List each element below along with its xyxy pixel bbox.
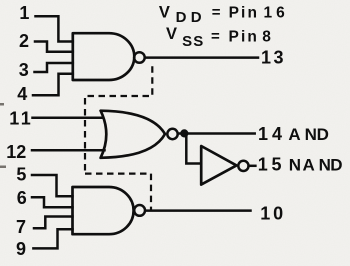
wire pin 7 to U3 input C: [34, 217, 73, 229]
power label VSS = Pin 8: [166, 25, 271, 50]
svg-text:6: 6: [17, 188, 27, 208]
svg-text:10: 10: [260, 204, 286, 224]
svg-text:Pin: Pin: [229, 4, 259, 21]
wire pin 1 to U1 input A: [36, 16, 73, 41]
svg-text:12: 12: [6, 142, 26, 162]
svg-text:14: 14: [258, 124, 286, 144]
4-input NAND gate U3: [73, 187, 146, 234]
svg-text:=: =: [211, 28, 220, 45]
power label VDD = Pin 16: [159, 3, 289, 26]
dashed wire NOR section down to U3 output: [85, 174, 151, 210]
wire pin 4 to U1 input D: [33, 74, 73, 96]
svg-text:N: N: [319, 156, 331, 175]
svg-text:A: A: [288, 125, 300, 144]
wire pin 12 to U2 input B: [32, 149, 105, 152]
svg-text:V: V: [159, 3, 170, 21]
svg-text:D: D: [330, 156, 342, 175]
2-input NOR gate U2: [101, 111, 178, 158]
net label 14 AND: [258, 124, 329, 144]
svg-text:V: V: [166, 25, 177, 43]
svg-text:11: 11: [9, 109, 33, 129]
inverter U4: [201, 146, 248, 185]
svg-text:Pin: Pin: [229, 28, 259, 45]
wire pin 3 to U1 input C: [35, 63, 73, 72]
svg-text:5: 5: [16, 165, 26, 185]
svg-text:N: N: [289, 156, 301, 175]
svg-text:15: 15: [258, 155, 285, 175]
svg-text:1: 1: [19, 3, 29, 23]
wire junction node to inverter U4 input: [186, 135, 201, 164]
wire U2 output to pin 14: [179, 132, 255, 135]
wire pin 5 to U3 input A: [32, 175, 73, 196]
svg-text:SS: SS: [182, 33, 204, 50]
svg-text:13: 13: [261, 48, 286, 68]
wire U4 output to pin 15: [250, 165, 256, 168]
svg-text:16: 16: [264, 4, 289, 21]
svg-text:9: 9: [16, 239, 26, 259]
svg-text:8: 8: [262, 28, 271, 45]
svg-text:2: 2: [19, 31, 29, 51]
svg-text:D: D: [317, 125, 329, 144]
4-input NAND gate U1: [73, 33, 145, 80]
svg-text:=: =: [212, 4, 221, 21]
svg-text:7: 7: [16, 217, 26, 237]
svg-text:A: A: [303, 156, 315, 175]
svg-text:3: 3: [19, 60, 29, 80]
wire pin 6 to U3 input B: [32, 197, 73, 207]
svg-text:N: N: [305, 125, 317, 144]
wire U3 output to pin 10: [146, 209, 251, 212]
svg-text:DD: DD: [176, 9, 206, 26]
dashed wire U1 output down to NOR section: [85, 62, 152, 174]
wire pin 2 to U1 input B: [35, 42, 73, 52]
wire pin 11 to U2 input A: [33, 117, 104, 120]
junction node on U2 output: [180, 129, 188, 137]
net label 15 NAND: [258, 155, 343, 175]
wire pin 9 to U3 input D: [33, 229, 72, 248]
svg-text:4: 4: [17, 84, 27, 104]
wire U1 output to pin 13: [146, 56, 258, 59]
